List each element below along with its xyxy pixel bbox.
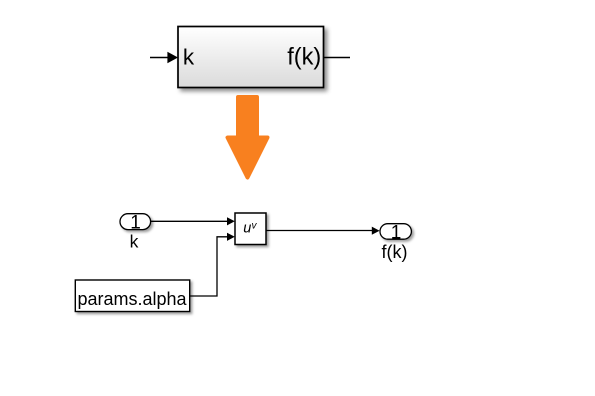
inport 1 bbox=[120, 214, 151, 230]
power block u^v bbox=[235, 213, 266, 245]
wire power block to outport bbox=[267, 230, 373, 232]
svg-text:f(k): f(k) bbox=[382, 242, 408, 262]
svg-text:k: k bbox=[130, 231, 139, 251]
svg-text:f(k): f(k) bbox=[287, 45, 321, 71]
outport 1 bbox=[380, 224, 411, 240]
wire params.alpha to power block port 2 bbox=[190, 237, 228, 296]
svg-text:k: k bbox=[183, 44, 195, 69]
wire input line to subsystem bbox=[150, 57, 169, 59]
arrowhead into power block port 1 bbox=[227, 217, 235, 225]
wire output line from subsystem bbox=[324, 57, 350, 59]
svg-text:params.alpha: params.alpha bbox=[77, 289, 187, 309]
svg-text:1: 1 bbox=[391, 222, 402, 243]
svg-text:u: u bbox=[243, 221, 251, 237]
arrowhead into outport bbox=[372, 227, 380, 235]
wire input arrowhead bbox=[167, 52, 178, 64]
arrowhead into power block port 2 bbox=[227, 233, 235, 241]
constant block params.alpha bbox=[75, 280, 189, 312]
wire k to power block bbox=[151, 220, 228, 222]
orange transition arrow bbox=[228, 97, 268, 178]
subsystem block bbox=[178, 27, 324, 88]
